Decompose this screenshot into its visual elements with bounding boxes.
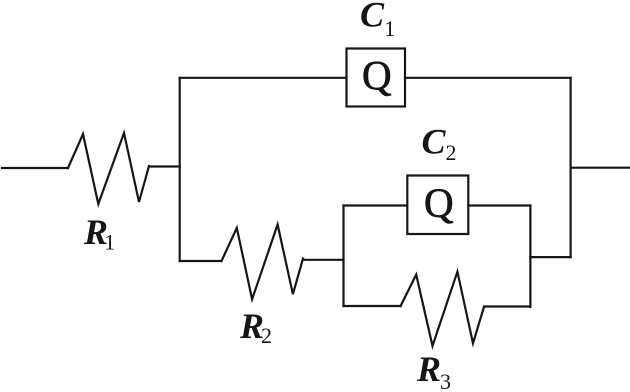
wire top branch left — [180, 77, 347, 79]
svg-text:Q: Q — [424, 179, 454, 225]
wire R1 to node A — [149, 165, 180, 167]
inner loop left vertical wire — [342, 206, 344, 307]
label C1 — [360, 0, 395, 41]
inner loop bottom wire right segment — [484, 305, 530, 307]
wire inner loop to node B — [530, 256, 570, 258]
wire output terminal — [571, 167, 630, 169]
wire bottom branch from node A — [180, 260, 222, 262]
node A left junction vertical wire — [179, 78, 181, 261]
wire input terminal — [2, 167, 68, 169]
CPE Q2 box — [407, 176, 468, 235]
label C2 — [422, 122, 457, 166]
svg-text:C: C — [422, 122, 447, 162]
svg-text:2: 2 — [261, 323, 272, 348]
wire R2 to inner loop node C — [303, 259, 344, 261]
inner loop top wire left segment — [344, 204, 408, 206]
resistor R3 — [401, 272, 484, 346]
svg-text:2: 2 — [446, 140, 457, 165]
CPE Q1 box — [347, 49, 406, 107]
inner loop bottom wire left segment — [344, 305, 401, 307]
svg-text:Q: Q — [362, 52, 392, 98]
wire top branch right — [405, 77, 571, 79]
node B right junction vertical wire — [569, 78, 571, 257]
resistor R2 — [222, 225, 304, 300]
inner loop top wire right segment — [468, 204, 530, 206]
label R2 — [239, 306, 272, 348]
svg-text:C: C — [360, 0, 385, 35]
svg-text:3: 3 — [440, 369, 451, 392]
svg-text:1: 1 — [384, 16, 395, 41]
svg-text:R: R — [416, 349, 441, 389]
resistor R1 — [68, 133, 149, 204]
inner loop right vertical wire — [529, 206, 531, 308]
label R1 — [83, 212, 115, 255]
svg-text:1: 1 — [104, 230, 115, 255]
label R3 — [416, 349, 451, 392]
